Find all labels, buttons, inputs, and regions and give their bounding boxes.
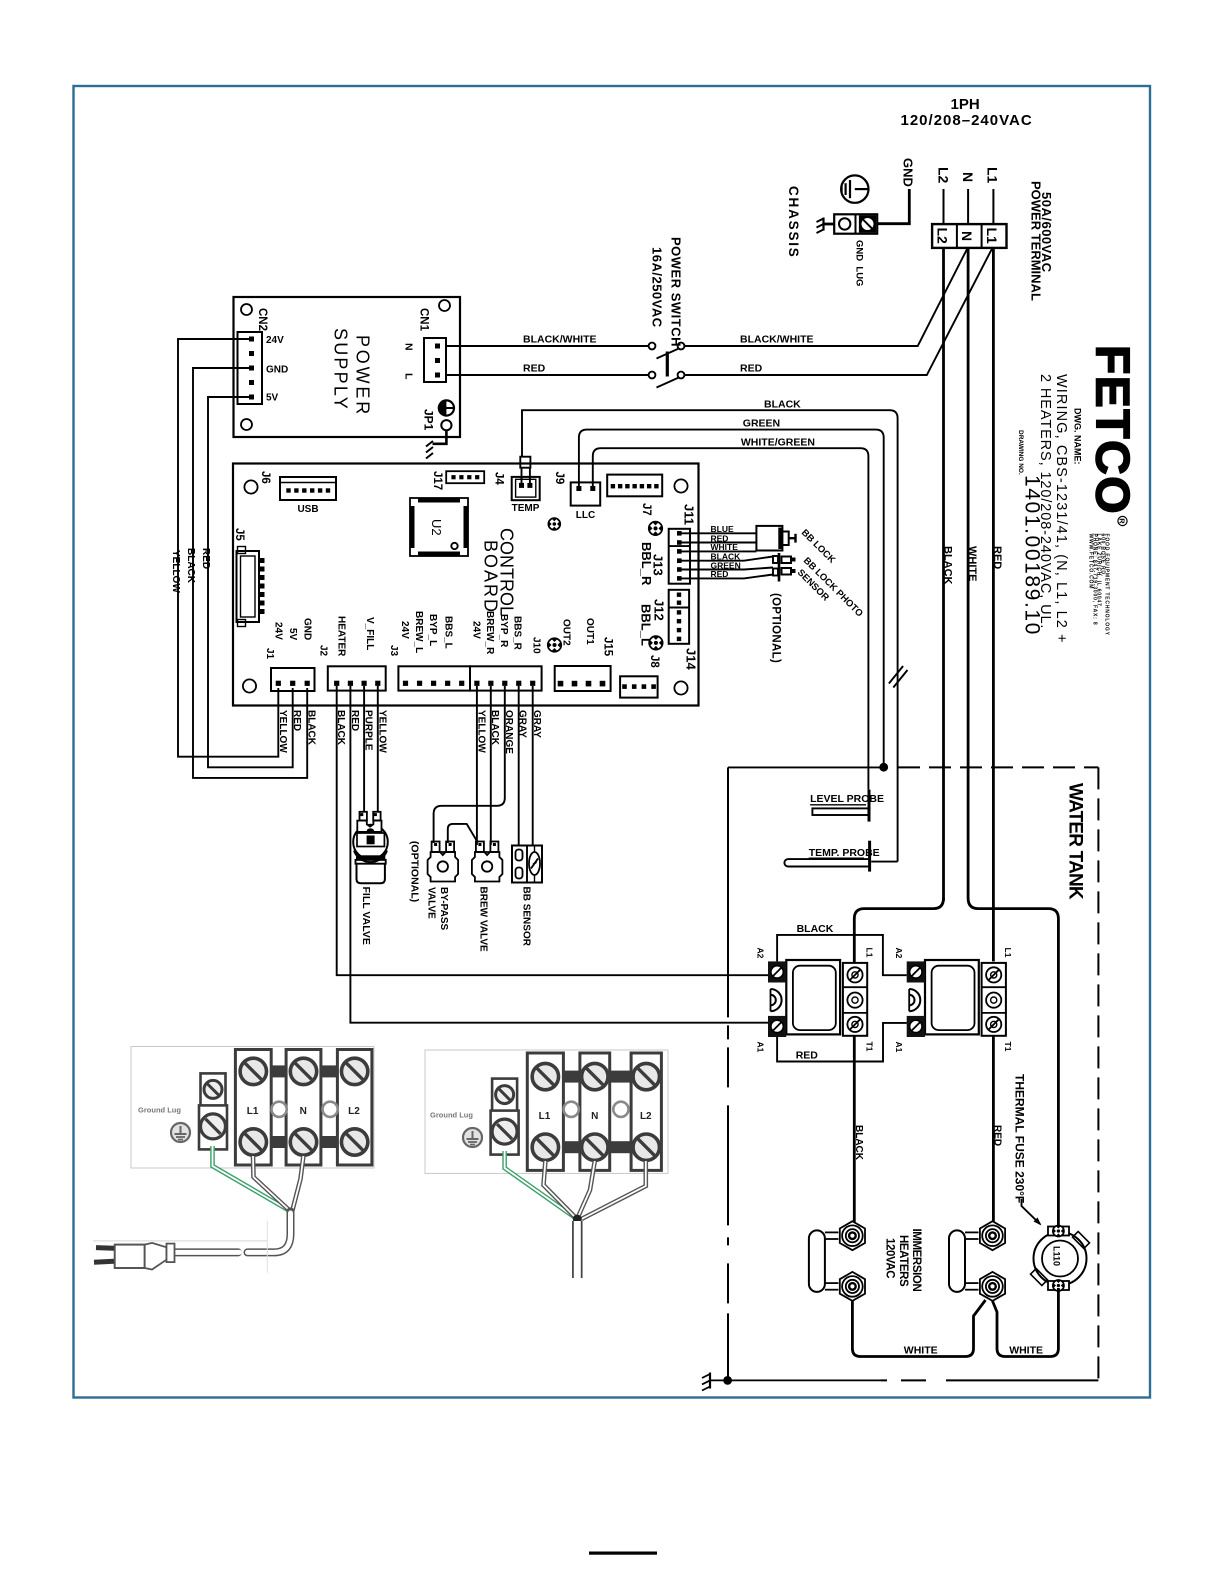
svg-text:J10: J10 [531, 637, 542, 654]
terminal block photo A screw [290, 1129, 316, 1155]
FETCO logo [1087, 345, 1140, 526]
CN2 pin 2 [249, 351, 254, 356]
terminal block photo B bus link [610, 1141, 631, 1153]
connector J4 TEMP [512, 477, 540, 500]
JP1 hole [441, 420, 451, 430]
photo A cord stub to plug [175, 1248, 238, 1256]
wire L2 feed [943, 189, 945, 224]
wire GREEN sensor [579, 430, 884, 767]
connector J1 [271, 668, 315, 691]
gnd lug block [834, 214, 877, 233]
svg-text:(OPTIONAL): (OPTIONAL) [408, 841, 420, 902]
svg-text:WIRING, CBS-1231/41, (N, L1, L: WIRING, CBS-1231/41, (N, L1, L2 + [1053, 374, 1069, 644]
wire J13 RED [682, 542, 757, 544]
wire PURPLE fill valve [363, 686, 365, 811]
svg-text:J14: J14 [684, 648, 699, 670]
svg-text:1401.00189.10: 1401.00189.10 [1021, 475, 1044, 636]
svg-text:WHITE: WHITE [966, 546, 978, 581]
wire GRAY bb sensor 2 [532, 686, 534, 846]
svg-text:RED: RED [992, 1125, 1003, 1146]
terminal block photo A pole 2 [286, 1050, 321, 1166]
temp probe underline [809, 857, 864, 859]
connector J3 [398, 666, 470, 690]
level probe underline [810, 804, 866, 806]
wire YELLOW brew valve [476, 686, 478, 845]
by-pass valve [428, 842, 459, 882]
wire GND to lug [878, 189, 910, 224]
svg-text:WHITE: WHITE [1009, 1345, 1043, 1357]
photo B wire N [578, 1161, 595, 1217]
relay K1 terminal A1 [768, 1016, 786, 1037]
terminal block photo A screw [240, 1058, 266, 1084]
wire J13 BLUE [682, 532, 757, 534]
wire RED rail [208, 397, 293, 767]
power supply mounting holes [241, 304, 252, 315]
svg-text:OUT1: OUT1 [584, 618, 595, 645]
wire BLACK sensor [522, 410, 898, 861]
connector J2 [328, 666, 386, 690]
terminal block photo B screw [582, 1134, 608, 1160]
svg-text:GRAY: GRAY [517, 710, 528, 738]
svg-text:THERMAL FUSE 230°F: THERMAL FUSE 230°F [1013, 1074, 1027, 1203]
terminal block photo B screw [532, 1134, 558, 1160]
connector J15 [555, 666, 611, 691]
svg-text:BLACK: BLACK [185, 548, 196, 584]
svg-text:IMMERSION: IMMERSION [910, 1229, 922, 1292]
CN2 pin 3 [249, 366, 254, 371]
svg-text:BREW_L: BREW_L [413, 611, 424, 653]
svg-text:FETCO: FETCO [1087, 345, 1140, 515]
svg-text:BYP_R: BYP_R [498, 614, 509, 648]
immersion heater 1 terminal bottom [840, 1272, 865, 1301]
junction dot ground [723, 1376, 732, 1385]
svg-text:GND LUG: GND LUG [854, 240, 865, 286]
svg-text:DWG. NAME:: DWG. NAME: [1073, 408, 1083, 465]
wire J13 RED to sensor [682, 575, 774, 579]
photo B cable down [572, 1221, 583, 1278]
svg-text:TEMP. PROBE: TEMP. PROBE [809, 847, 880, 859]
terminal block photo B pole 1 [527, 1053, 563, 1170]
photo B wire L1 [544, 1161, 576, 1217]
svg-text:V_FILL: V_FILL [364, 617, 375, 650]
BB lock photo sensor [773, 553, 796, 582]
relay K1 terminal A2 [768, 961, 786, 982]
water tank boundary left [727, 767, 729, 1380]
power terminal divider 2 [981, 224, 983, 248]
wire BLACK heater 1 [853, 1036, 856, 1222]
terminal block photo A screw [341, 1129, 367, 1155]
thermal fuse screw top [1053, 1225, 1064, 1236]
svg-text:GRAY: GRAY [531, 710, 542, 738]
relay K1 middle terminal [847, 993, 862, 1008]
wire BLACK relay coils [777, 935, 907, 975]
svg-text:SUPPLY: SUPPLY [331, 328, 351, 411]
svg-text:T1: T1 [865, 1042, 875, 1052]
svg-text:TEMP: TEMP [512, 503, 540, 514]
relay K2 screw L1 [986, 967, 1001, 982]
svg-text:A1: A1 [894, 1042, 904, 1053]
chassis ground symbol bottom [702, 1373, 710, 1391]
svg-text:L1: L1 [247, 1106, 259, 1117]
svg-text:J5: J5 [233, 528, 245, 541]
svg-text:Ground Lug: Ground Lug [138, 1106, 181, 1115]
wire RED heater [350, 686, 770, 1023]
svg-text:BBS_R: BBS_R [512, 616, 523, 651]
svg-text:24V: 24V [471, 621, 482, 639]
svg-text:16A/250VAC: 16A/250VAC [650, 247, 665, 328]
immersion heater 1 terminal top [840, 1221, 865, 1250]
wire N feed [967, 189, 969, 224]
svg-text:R: R [1118, 518, 1127, 524]
svg-text:RED: RED [740, 363, 763, 375]
svg-text:BYP_L: BYP_L [427, 614, 438, 646]
svg-text:L1: L1 [539, 1111, 551, 1122]
svg-text:OUT2: OUT2 [561, 619, 572, 646]
connector J10 [470, 666, 542, 690]
svg-text:BLACK/WHITE: BLACK/WHITE [523, 334, 597, 346]
wire TEMP pin right up [529, 468, 531, 483]
photo A cord [248, 1212, 291, 1252]
terminal block photo A bus link [321, 1065, 338, 1077]
svg-text:A2: A2 [756, 948, 766, 959]
terminal block photo A earth symbol [171, 1123, 190, 1142]
svg-text:YELLOW: YELLOW [376, 710, 387, 753]
svg-text:GND: GND [901, 158, 916, 187]
gnd lug divider [855, 214, 857, 233]
svg-text:J15: J15 [602, 637, 614, 657]
water tank boundary right [1097, 767, 1099, 1380]
svg-text:120/208–240VAC: 120/208–240VAC [901, 112, 1033, 129]
wire break marks on BLACK sensor wire [889, 666, 903, 684]
svg-text:J2: J2 [318, 645, 329, 657]
svg-text:LEVEL PROBE: LEVEL PROBE [810, 793, 884, 805]
photo A cord junction [287, 1208, 295, 1216]
svg-text:BOARD: BOARD [481, 540, 501, 614]
terminal block photo A small hole [323, 1102, 338, 1117]
svg-text:BY-PASS: BY-PASS [438, 887, 449, 930]
wire BLACK from L2 [942, 248, 945, 901]
wire BLACK heater [337, 686, 770, 975]
junction dot green/level [879, 763, 888, 772]
terminal block photo B earth symbol [463, 1128, 482, 1147]
terminal block photo B screw [633, 1063, 659, 1089]
gnd lug screw [859, 215, 876, 232]
svg-text:N: N [591, 1111, 598, 1122]
wire RED left [446, 374, 649, 376]
terminal block photo B screw [532, 1063, 558, 1089]
relay K2 body [925, 960, 979, 1034]
photo A wire L1 [253, 1156, 288, 1209]
J15 pins [558, 681, 564, 687]
connector J12 BBL_L [669, 590, 689, 644]
svg-text:BLACK: BLACK [764, 399, 801, 411]
gnd lug left hole [839, 218, 850, 229]
page mark [589, 1552, 657, 1555]
J3 pins [403, 681, 408, 686]
wire WHITE heater1 return [852, 1300, 985, 1357]
relay K2 terminal A2 [907, 961, 925, 982]
svg-text:GND: GND [302, 618, 313, 640]
svg-text:BLACK: BLACK [335, 710, 346, 746]
connector CN2 [238, 332, 263, 404]
filter on TEMP wires [520, 457, 530, 468]
relay K2 terminal A1 [907, 1016, 925, 1037]
CN2 pin 1 [249, 337, 254, 342]
svg-text:BLACK: BLACK [306, 710, 317, 746]
photo A plug [94, 1243, 175, 1270]
photo A wire N [293, 1156, 304, 1210]
level probe [812, 790, 869, 822]
svg-text:J9: J9 [553, 472, 565, 485]
svg-text:JP1: JP1 [422, 409, 436, 431]
fill valve [353, 812, 388, 883]
wire BLACK/WHITE left [446, 345, 649, 347]
terminal block photo A pole 3 [337, 1050, 372, 1166]
J6 pins [286, 488, 290, 492]
J9 pins [576, 486, 581, 491]
wire WHITE/GREEN sensor [593, 448, 869, 789]
svg-text:RED: RED [796, 1050, 819, 1062]
svg-text:J7: J7 [640, 503, 652, 516]
wire RED diagonal from L1 [685, 248, 993, 375]
wire L1 feed [992, 189, 994, 224]
terminal block photo A small hole [272, 1102, 287, 1117]
svg-text:BBS_L: BBS_L [443, 616, 454, 649]
svg-text:L110: L110 [1052, 1246, 1062, 1266]
svg-text:RED: RED [291, 710, 302, 731]
svg-text:J6: J6 [259, 471, 271, 484]
svg-text:N: N [300, 1106, 307, 1117]
svg-text:(OPTIONAL): (OPTIONAL) [770, 593, 782, 663]
svg-text:Ground Lug: Ground Lug [430, 1111, 473, 1120]
connector CN1 [424, 338, 446, 382]
CN2 pin 5 [249, 395, 254, 400]
svg-text:WWW.FETCO.COM: WWW.FETCO.COM [1088, 534, 1094, 590]
svg-text:WATER TANK: WATER TANK [1065, 783, 1086, 900]
protective earth symbol [841, 175, 868, 202]
wire YELLOW rail [178, 339, 278, 757]
svg-text:WHITE/GREEN: WHITE/GREEN [741, 437, 815, 449]
jumper JP1 screw [439, 400, 454, 415]
terminal block photo A screw [290, 1058, 316, 1084]
svg-text:L2: L2 [936, 167, 952, 184]
wire WHITE heater2 to fuse [993, 1288, 1059, 1357]
control board mounting holes [244, 480, 257, 493]
CN1 pin 3 [435, 373, 440, 378]
chassis ground stub at lug [824, 223, 835, 226]
wire ORANGE bypass valve [434, 686, 505, 843]
photo A green wire [213, 1146, 290, 1211]
svg-text:J4: J4 [493, 472, 505, 485]
svg-text:ORANGE: ORANGE [503, 710, 514, 754]
power supply module [234, 297, 461, 437]
terminal block photo A bus link [271, 1136, 286, 1148]
screw J8 [649, 636, 663, 650]
svg-text:USB: USB [297, 504, 318, 515]
svg-text:N: N [403, 343, 415, 351]
wire RED relay coils [777, 1023, 907, 1062]
water tank boundary top [898, 766, 1098, 768]
wire ground run [710, 1379, 881, 1381]
svg-text:J3: J3 [388, 645, 399, 657]
screw J7 [649, 522, 663, 536]
connector J9 LLC [571, 482, 601, 505]
svg-text:N: N [960, 172, 976, 182]
svg-text:50A/600VAC: 50A/600VAC [1039, 192, 1054, 273]
terminal block photo A ground lug [199, 1073, 227, 1149]
connector J13 BBL_R [669, 529, 690, 584]
relay K2 screw T1 [986, 1017, 1001, 1032]
terminal block photo B bus link [563, 1071, 580, 1083]
wire WHITE from N [968, 248, 1058, 1228]
relay K1 coil horseshoe [771, 989, 782, 1011]
svg-text:POWER: POWER [353, 335, 373, 417]
svg-text:120VAC: 120VAC [884, 1238, 896, 1278]
chip U2 [410, 498, 468, 556]
board screw near J15 bottom [548, 638, 562, 652]
svg-text:24V: 24V [266, 335, 284, 346]
svg-text:HEATER: HEATER [336, 616, 347, 657]
svg-text:GREEN: GREEN [743, 418, 780, 430]
svg-text:5V: 5V [266, 393, 279, 404]
svg-text:LLC: LLC [576, 510, 595, 521]
water tank boundary bottom [881, 1379, 1098, 1381]
svg-text:L1: L1 [984, 228, 1000, 245]
relay K1 right terminal column [843, 963, 867, 1036]
wire BLACK brew valve [490, 686, 492, 845]
svg-text:A2: A2 [894, 948, 904, 959]
immersion heater 2 terminal top [980, 1221, 1005, 1250]
svg-text:HEATERS: HEATERS [897, 1235, 909, 1287]
svg-text:RED: RED [200, 548, 211, 569]
svg-text:YELLOW: YELLOW [277, 710, 288, 753]
svg-text:CN1: CN1 [418, 308, 430, 332]
wire BLACK/WHITE diagonal from N [685, 248, 968, 346]
connector J5 [237, 547, 265, 627]
svg-text:BBL_R: BBL_R [639, 542, 654, 586]
svg-text:VALVE: VALVE [425, 887, 436, 919]
board screw near J15 top [548, 518, 560, 530]
temp probe [784, 841, 869, 872]
relay K1 screw T1 [847, 1017, 862, 1032]
wire BLACK rail [193, 368, 307, 778]
photo B cable junction [573, 1215, 582, 1224]
svg-text:YELLOW: YELLOW [475, 710, 486, 753]
svg-text:CHASSIS: CHASSIS [786, 186, 801, 259]
svg-text:N: N [959, 231, 975, 241]
CN1 pin 2 [435, 358, 440, 363]
svg-text:L1: L1 [865, 948, 875, 958]
svg-text:FILL VALVE: FILL VALVE [360, 887, 372, 945]
terminal block photo B screw [633, 1134, 659, 1160]
terminal block photo B ground lug [491, 1079, 519, 1155]
svg-text:J11: J11 [682, 504, 697, 525]
terminal block photo A pole 1 [235, 1050, 271, 1166]
svg-text:24V: 24V [273, 622, 284, 640]
svg-text:BREW_R: BREW_R [484, 611, 495, 655]
svg-text:L1: L1 [1003, 948, 1013, 958]
svg-text:A1: A1 [756, 1042, 766, 1053]
J2 pins [334, 681, 339, 686]
svg-text:J17: J17 [431, 471, 443, 490]
svg-text:J8: J8 [648, 655, 660, 668]
J14 pins [622, 684, 627, 689]
thermal fuse body [1031, 1227, 1090, 1291]
svg-text:U2: U2 [429, 519, 444, 536]
svg-text:CN2: CN2 [256, 308, 268, 331]
J11 pins [611, 484, 615, 488]
brew valve [472, 842, 503, 882]
svg-text:L2: L2 [348, 1106, 360, 1117]
terminal block photo B small hole [564, 1102, 579, 1117]
thermal fuse screw bottom [1053, 1280, 1064, 1291]
control board [233, 464, 699, 706]
svg-text:5V: 5V [287, 628, 298, 641]
CN1 pin 1 [435, 344, 440, 349]
svg-text:BLACK/WHITE: BLACK/WHITE [740, 334, 814, 346]
wire temp probe to black [871, 861, 897, 863]
terminal block photo A screw [341, 1058, 367, 1084]
relay K1 screw L1 [847, 967, 862, 982]
wire RED heater 2 [992, 1036, 995, 1222]
wire TEMP pin left up [521, 468, 523, 483]
svg-text:BLACK: BLACK [797, 923, 834, 935]
wire RED from L1 [992, 248, 995, 962]
immersion heater 2 terminal bottom [980, 1272, 1005, 1301]
svg-text:RED: RED [991, 546, 1003, 569]
J6 inner line [280, 482, 336, 484]
leader arrow head [1034, 1218, 1042, 1226]
svg-text:L1: L1 [984, 167, 1000, 184]
power switch S1 [649, 343, 685, 388]
svg-text:RED: RED [349, 710, 360, 731]
immersion heater 2 element loop [949, 1230, 979, 1292]
relay K1 body [786, 960, 840, 1034]
svg-text:RED: RED [523, 363, 546, 375]
terminal block photo A bus link [271, 1065, 286, 1077]
svg-text:L2: L2 [935, 228, 951, 245]
wire JP1 to chassis [433, 430, 447, 444]
photo B wire L2 [582, 1161, 646, 1219]
svg-text:1PH: 1PH [951, 96, 980, 113]
immersion heater 1 element loop [809, 1230, 839, 1292]
svg-text:T1: T1 [1003, 1042, 1013, 1052]
wire YELLOW fill valve [377, 686, 379, 811]
terminal block photo B frame [425, 1050, 668, 1173]
connector J11 [607, 475, 662, 497]
svg-text:BLACK: BLACK [941, 546, 953, 585]
terminal block photo B bus link [610, 1071, 631, 1083]
wire GRAY bb sensor 1 [518, 686, 520, 846]
BB lock solenoid [756, 526, 795, 551]
svg-text:POWER SWITCH: POWER SWITCH [668, 237, 683, 347]
svg-text:BLACK: BLACK [489, 710, 500, 746]
svg-text:BLACK: BLACK [853, 1125, 864, 1161]
photo B green wire [505, 1151, 576, 1218]
terminal block photo A bus link [321, 1136, 338, 1148]
svg-text:BB SENSOR: BB SENSOR [521, 887, 532, 947]
relay K2 right terminal column [982, 963, 1006, 1036]
svg-text:PURPLE: PURPLE [363, 710, 374, 751]
wire J13 GREEN to sensor [682, 568, 774, 570]
CN2 pin 4 [249, 380, 254, 385]
wire bypass to brew link [448, 824, 477, 843]
connector J14 [620, 676, 658, 697]
relay K2 middle terminal [986, 993, 1001, 1008]
J17 pins [451, 475, 455, 479]
thermal fuse leader [1022, 1199, 1041, 1224]
terminal block photo B bus link [563, 1141, 580, 1153]
